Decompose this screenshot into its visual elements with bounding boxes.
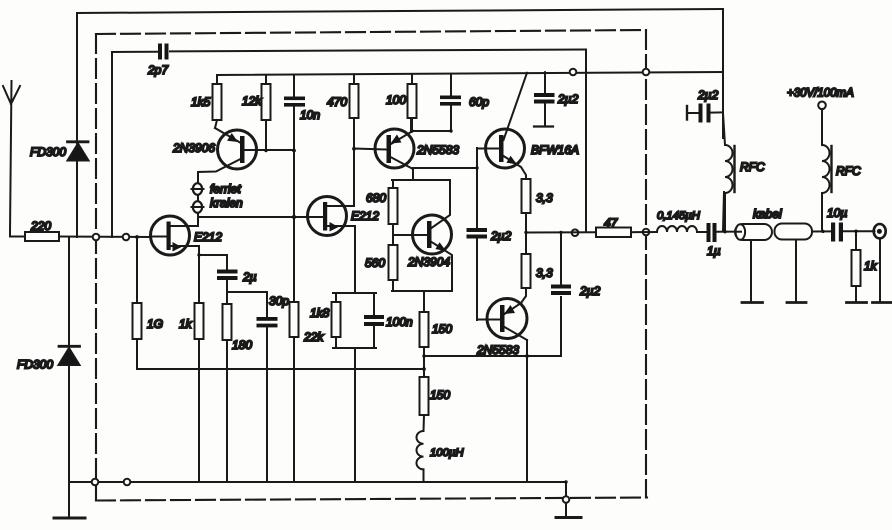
supply rail — [217, 72, 723, 75]
svg-text:1k5: 1k5 — [191, 95, 211, 109]
resistor 3,3 upper — [522, 179, 554, 213]
RFC1 choke — [725, 145, 765, 232]
svg-text:3,3: 3,3 — [536, 191, 553, 205]
wire 2u bottom node — [226, 280, 228, 304]
svg-text:2N3906: 2N3906 — [172, 141, 215, 155]
RC pair bottom wire — [333, 347, 376, 349]
capacitor 2u — [217, 270, 257, 285]
wire base driver — [354, 149, 387, 150]
svg-text:0,145µH: 0,145µH — [657, 210, 701, 222]
svg-text:680: 680 — [366, 191, 386, 205]
wire driver collector up — [411, 118, 412, 132]
capacitor 2p7 — [147, 44, 169, 78]
transistor E212 first — [151, 216, 223, 255]
svg-text:2µ2: 2µ2 — [557, 92, 579, 106]
ground left — [54, 517, 85, 520]
capacitor 30p — [257, 294, 290, 327]
svg-text:2p7: 2p7 — [147, 63, 169, 77]
ground bus — [69, 481, 566, 483]
wire 150b to coil — [423, 415, 426, 431]
svg-text:100n: 100n — [386, 315, 413, 329]
node circle bus 1 — [92, 479, 99, 486]
feedthrough node circles input row — [93, 234, 100, 241]
inner screen left edge — [111, 52, 113, 237]
wire kabel2 ground — [795, 240, 797, 301]
svg-text:47: 47 — [604, 216, 619, 230]
wire coil to 1u — [697, 231, 707, 233]
wire driver emitter down — [412, 169, 414, 180]
resistor 1k8 — [310, 293, 341, 348]
wire to 30p — [227, 292, 267, 317]
wire left edge lower — [68, 237, 70, 518]
resistor 150 upper — [420, 312, 453, 347]
wire signal to stage2 gate — [198, 216, 308, 218]
outer shield right edge — [722, 9, 724, 138]
feedthrough circle row dashed — [643, 229, 650, 236]
wire 470 to drain — [353, 118, 355, 206]
capacitor 60p — [440, 74, 489, 131]
wire kabel1 ground — [750, 240, 752, 301]
svg-text:kralen: kralen — [210, 196, 243, 210]
capacitor 2u2 top feedthrough — [534, 72, 579, 126]
output row wire — [526, 231, 596, 233]
node input row — [59, 236, 151, 239]
resistor 47 — [596, 216, 631, 237]
wire 150a drop — [423, 291, 425, 312]
resistor 1G — [133, 237, 164, 339]
svg-text:RFC: RFC — [740, 160, 765, 174]
node circle shield ground — [563, 496, 570, 503]
wire RFC2 to row — [821, 193, 823, 231]
svg-text:E212: E212 — [194, 230, 222, 244]
wire 180 to bus — [226, 340, 228, 482]
wire 10u to output — [843, 230, 875, 232]
wire 560 bottom — [392, 280, 394, 291]
wire 3,3b to transistor — [521, 288, 526, 303]
wire 3,3a to row — [525, 213, 527, 233]
resistor 22k — [290, 302, 325, 344]
transistor 2N5583 driver — [375, 129, 459, 169]
transistor 2N3904 — [393, 180, 452, 291]
resistor 1k — [179, 303, 204, 339]
svg-text:kabel: kabel — [753, 207, 782, 221]
RC pair top wire — [333, 292, 376, 294]
wire 3904 top — [392, 179, 450, 181]
resistor 470 — [327, 74, 359, 118]
wire 1k to bus — [198, 339, 200, 482]
svg-text:BFW16A: BFW16A — [531, 143, 579, 157]
diode FD300 upper — [30, 142, 89, 161]
svg-text:1G: 1G — [147, 317, 163, 331]
wire source column 1k — [198, 246, 200, 303]
ferrite bead 2 — [192, 201, 204, 213]
svg-text:1µ: 1µ — [707, 244, 721, 258]
dashed shield box — [96, 30, 647, 501]
inner screen right edge — [585, 50, 587, 233]
wire BFW collector — [507, 73, 527, 130]
capacitor 10n — [284, 75, 320, 122]
svg-text:1k8: 1k8 — [310, 306, 330, 320]
svg-text:220: 220 — [30, 219, 51, 233]
wire 150a to 150b — [423, 347, 425, 377]
resistor 1k output — [852, 231, 878, 301]
svg-text:180: 180 — [232, 338, 252, 352]
wire 10n/22k column — [293, 107, 295, 303]
wire 3904 bottom — [392, 290, 452, 292]
svg-text:150: 150 — [430, 388, 450, 402]
svg-text:FD300: FD300 — [30, 145, 66, 159]
wire base 2N3906 — [245, 149, 295, 151]
wire 356 row — [424, 355, 561, 357]
svg-text:60p: 60p — [469, 95, 489, 109]
svg-text:2N5583: 2N5583 — [476, 343, 519, 357]
svg-text:560: 560 — [365, 256, 385, 270]
outer shield left edge upper — [76, 13, 78, 237]
transistor E212 second — [308, 197, 380, 236]
svg-text:10µ: 10µ — [827, 206, 847, 220]
RFC2 choke — [822, 145, 861, 193]
capacitor 2u2 output lower — [551, 233, 601, 357]
inductor 0,145uH — [657, 210, 701, 232]
ferrite bead 1 — [192, 183, 204, 195]
resistor 560 — [365, 245, 398, 280]
svg-text:E212: E212 — [351, 209, 379, 223]
svg-text:150: 150 — [432, 322, 452, 336]
ground kabel2 — [787, 301, 806, 304]
svg-text:2µ2: 2µ2 — [579, 284, 601, 298]
wire 680 to 560 — [392, 224, 394, 245]
inner screen wire top with 2p7 — [112, 51, 157, 53]
wire kabel to 10u — [812, 230, 831, 232]
kabel cylinder 2 — [775, 224, 813, 240]
diode FD300 lower — [17, 346, 80, 371]
wire source stub right — [199, 255, 227, 269]
wire 47 to coil — [631, 231, 657, 233]
svg-text:1k: 1k — [864, 259, 878, 273]
node circle bus 2 — [124, 479, 131, 486]
wire output emitter to bus — [526, 340, 528, 482]
svg-text:3,3: 3,3 — [536, 266, 553, 280]
svg-text:FD300: FD300 — [17, 358, 53, 372]
wire coil to bus — [423, 469, 425, 482]
wire 22k to bus — [293, 337, 295, 482]
wire emitter node right — [413, 167, 477, 169]
resistor 220 — [25, 219, 59, 241]
resistor 180 — [223, 304, 253, 352]
svg-text:12k: 12k — [242, 94, 262, 108]
svg-text:RFC: RFC — [836, 164, 861, 178]
capacitor 2u2 interstage — [467, 148, 512, 320]
capacitor 100n — [364, 293, 413, 348]
kabel cylinder 1 — [735, 207, 782, 240]
ground kabel1 — [742, 301, 763, 304]
wire antenna to resistor — [10, 232, 25, 237]
wire source to RC pair — [354, 226, 356, 293]
capacitor 1u — [707, 223, 721, 258]
wire supply down — [821, 109, 823, 145]
supply terminal +30V — [787, 88, 854, 110]
transistor 2N5583 output — [476, 299, 527, 358]
inductor 100uH — [416, 431, 464, 469]
svg-text:22k: 22k — [303, 330, 324, 344]
capacitor 10u — [827, 206, 847, 242]
transistor 2N3906 — [172, 128, 257, 172]
wire 1G to long wire — [136, 339, 138, 369]
wire long bottom — [137, 368, 424, 370]
outer shield top edge — [77, 9, 723, 13]
svg-text:2µ2: 2µ2 — [490, 229, 512, 243]
wire collector node driver — [411, 130, 451, 132]
ground shield — [556, 516, 581, 519]
wire 1u to kabel — [717, 231, 737, 233]
svg-text:+30V/100mA: +30V/100mA — [787, 88, 854, 100]
svg-text:100µH: 100µH — [430, 447, 464, 459]
svg-text:2N5583: 2N5583 — [416, 143, 459, 157]
svg-text:10n: 10n — [300, 108, 320, 122]
ground 1k output — [847, 301, 867, 304]
wire right edge lower — [723, 192, 724, 231]
resistor 150 lower — [420, 377, 451, 415]
wire RFC1 top to 2u2 node — [723, 113, 725, 145]
wire RC to bus — [354, 348, 356, 482]
wire bus to shield ground — [565, 482, 567, 517]
svg-text:ferriet: ferriet — [210, 182, 241, 196]
wire beads column — [197, 172, 199, 217]
ground connector — [873, 301, 892, 304]
wire connector ground — [879, 238, 881, 301]
capacitor 2u2 coax — [687, 88, 723, 123]
svg-text:1k: 1k — [179, 317, 193, 331]
svg-text:2µ: 2µ — [242, 270, 257, 284]
resistor 100 — [386, 74, 417, 131]
resistor 1k5 — [191, 75, 222, 128]
feedthrough circle row left — [572, 229, 579, 236]
transistor BFW16A — [477, 129, 579, 179]
output connector — [874, 224, 886, 238]
wire 30p to bus — [266, 327, 268, 482]
svg-text:470: 470 — [327, 95, 347, 109]
resistor 12k — [242, 75, 271, 151]
svg-text:30p: 30p — [269, 294, 289, 308]
svg-text:2N3904: 2N3904 — [407, 255, 450, 269]
feedthrough circle rail dashed — [643, 69, 650, 76]
antenna — [3, 81, 20, 232]
svg-text:2µ2: 2µ2 — [697, 88, 719, 102]
resistor 680 — [366, 180, 398, 224]
feedthrough circle rail left — [570, 69, 577, 76]
wire row to 3,3b — [525, 233, 527, 255]
svg-text:100: 100 — [386, 93, 406, 107]
resistor 3,3 lower — [522, 254, 554, 288]
